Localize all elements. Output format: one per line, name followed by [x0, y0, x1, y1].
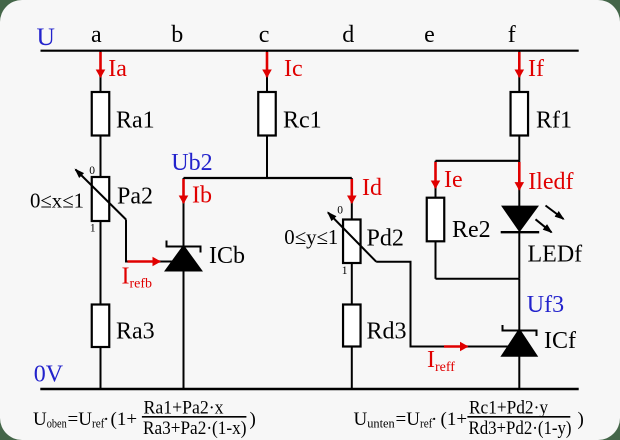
svg-text:1: 1	[90, 223, 96, 235]
wire junction down to LEDf	[518, 161, 520, 206]
svg-text:Ib: Ib	[192, 183, 212, 209]
wire Ub2 down to Pd2	[351, 178, 353, 220]
svg-text:LEDf: LEDf	[528, 242, 583, 268]
svg-text:Ra3+Pa2·(1-x): Ra3+Pa2·(1-x)	[143, 418, 247, 439]
resistor Ra3	[92, 305, 110, 348]
current arrow Ic	[266, 52, 269, 77]
svg-text:ICf: ICf	[544, 328, 576, 354]
wire Rf1 to split junction	[518, 136, 520, 161]
wire Pa2 wiper to ICb ref	[126, 220, 176, 262]
wire Pd2 wiper to ICf ref	[376, 262, 510, 347]
wire Pd2 to Rd3	[351, 263, 353, 305]
svg-text:0≤y≤1: 0≤y≤1	[284, 225, 338, 249]
svg-text:=Uref: =Uref	[68, 409, 106, 431]
resistor Re2	[427, 198, 445, 242]
wire junction to ICf	[518, 279, 520, 333]
current arrow Ireff	[444, 345, 467, 348]
svg-text:Ireff: Ireff	[427, 347, 455, 375]
svg-text:): )	[578, 409, 584, 430]
resistor Rd3	[343, 305, 361, 347]
svg-text:Pa2: Pa2	[117, 184, 153, 210]
wire Ra3 to 0V rail	[100, 347, 102, 389]
svg-text:a: a	[91, 22, 102, 48]
current arrow Iledf	[518, 162, 521, 189]
wire junction down to Re2	[435, 161, 437, 198]
svg-text:Rd3: Rd3	[367, 318, 407, 344]
svg-text:·: ·	[103, 409, 109, 430]
svg-text:Uoben: Uoben	[33, 409, 67, 431]
wire ICf to 0V rail	[518, 356, 520, 389]
potentiometer Pa2	[76, 170, 127, 222]
svg-text:Irefb: Irefb	[122, 263, 153, 291]
formula U oben	[33, 398, 256, 440]
svg-text:Uunten: Uunten	[354, 409, 396, 431]
wire Pa2 to Ra3	[100, 221, 102, 305]
formula U unten	[354, 398, 584, 440]
shunt regulator ICf	[501, 325, 537, 356]
wire Rc1 to node Ub2	[266, 136, 268, 179]
svg-text:Ic: Ic	[284, 56, 303, 82]
svg-text:Uf3: Uf3	[527, 292, 564, 318]
wire Ub2 down to ICb	[183, 178, 185, 250]
current arrow Ib	[182, 179, 185, 203]
svg-text:Ra1+Pa2·x: Ra1+Pa2·x	[144, 398, 224, 419]
resistor Rf1	[511, 92, 529, 136]
wire ICb to 0V rail	[183, 271, 185, 389]
svg-text:Ie: Ie	[444, 167, 463, 193]
svg-text:e: e	[424, 22, 435, 48]
current arrow Ia	[99, 52, 102, 77]
wire LEDf to bottom junction	[518, 232, 520, 279]
wire node a to Ra1	[100, 51, 102, 92]
wire top rail U	[41, 50, 579, 52]
svg-text:c: c	[259, 22, 270, 48]
svg-text:U: U	[37, 22, 55, 51]
svg-text:·: ·	[431, 409, 437, 430]
current arrow Id	[350, 179, 353, 203]
svg-text:0≤x≤1: 0≤x≤1	[30, 189, 84, 213]
wire bottom junction horizontal	[436, 278, 520, 280]
svg-text:0: 0	[89, 165, 95, 177]
shunt regulator ICb	[165, 241, 202, 272]
svg-text:b: b	[171, 22, 183, 48]
svg-text:Ra1: Ra1	[116, 108, 155, 134]
svg-text:Pd2: Pd2	[367, 226, 404, 252]
svg-text:(1+: (1+	[441, 409, 468, 430]
svg-text:Ia: Ia	[108, 56, 127, 82]
svg-text:Rf1: Rf1	[536, 108, 572, 134]
potentiometer Pd2	[328, 213, 376, 264]
wire Re2 to bottom junction	[435, 241, 437, 278]
svg-text:Iledf: Iledf	[528, 169, 573, 195]
svg-text:Re2: Re2	[452, 217, 491, 243]
LED LEDf	[501, 206, 564, 233]
svg-text:If: If	[528, 56, 544, 82]
wire Ra1 to Pa2	[100, 136, 102, 178]
wire node Ub2 horizontal	[184, 177, 352, 179]
wire node f to Rf1	[518, 51, 520, 92]
svg-text:Ra3: Ra3	[116, 318, 155, 344]
svg-text:0: 0	[337, 204, 343, 216]
svg-text:=Uref: =Uref	[396, 409, 434, 431]
svg-text:): )	[250, 409, 256, 430]
wire node c to Rc1	[266, 51, 268, 92]
svg-text:ICb: ICb	[209, 243, 245, 269]
current arrow Ie	[434, 162, 437, 188]
svg-text:(1+: (1+	[111, 409, 138, 430]
resistor Ra1	[92, 92, 110, 136]
current arrow Irefb	[128, 260, 160, 263]
svg-text:1: 1	[342, 265, 348, 277]
current arrow If	[518, 52, 521, 77]
resistor Rc1	[258, 92, 276, 136]
svg-text:Id: Id	[362, 175, 382, 201]
svg-text:Ub2: Ub2	[171, 150, 212, 176]
svg-text:Rc1+Pd2·y: Rc1+Pd2·y	[469, 398, 548, 419]
svg-text:0V: 0V	[34, 361, 64, 387]
svg-text:f: f	[508, 22, 516, 48]
svg-text:Rd3+Pd2·(1-y): Rd3+Pd2·(1-y)	[469, 418, 572, 439]
wire Rd3 to 0V rail	[351, 347, 353, 390]
svg-text:Rc1: Rc1	[283, 108, 322, 134]
wire 0V bottom rail	[40, 388, 578, 390]
wire split junction horizontal	[436, 160, 520, 162]
svg-text:d: d	[342, 22, 354, 48]
